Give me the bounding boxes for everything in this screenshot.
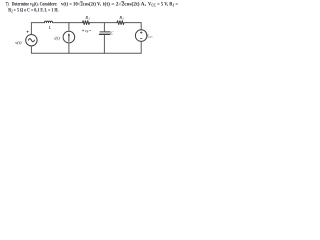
voltage source v(t) — [26, 35, 37, 46]
plus mark of vR — [82, 30, 84, 32]
wire right branch — [140, 41, 142, 53]
arrowhead of current source arrow — [68, 33, 70, 35]
inductor L — [45, 21, 53, 22]
svg-text:R2 = 5 Ω e C = 0,1 F, L = 1 H.: R2 = 5 Ω e C = 0,1 F, L = 1 H. — [8, 8, 59, 14]
svg-text:C: C — [110, 31, 114, 36]
capacitor C top plate — [100, 31, 110, 33]
capacitor C branch wire lower — [103, 35, 105, 53]
minus mark of vR — [89, 30, 91, 32]
svg-text:L: L — [48, 25, 52, 30]
plus polarity mark above v(t) — [27, 31, 29, 33]
wire current source branch — [68, 23, 70, 54]
svg-text:R2: R2 — [118, 15, 124, 21]
resistor R1 — [83, 21, 90, 25]
svg-text:VCC: VCC — [146, 33, 154, 39]
capacitor C bottom plate — [100, 33, 110, 35]
wire top-right corner — [125, 23, 142, 30]
wire top (R1 to R2) — [90, 22, 118, 24]
svg-text:v(t): v(t) — [15, 40, 22, 45]
svg-text:Determine vR(t). Considere:: Determine vR(t). Considere: — [12, 0, 58, 7]
svg-text:v(t) = 10√2cos(2t) V,: v(t) = 10√2cos(2t) V, — [61, 0, 102, 7]
wire left-bottom — [31, 46, 69, 53]
svg-text:i(t): i(t) — [54, 36, 60, 41]
svg-text:VCC = 5 V, R1 =: VCC = 5 V, R1 = — [148, 1, 178, 7]
wire top middle (L to R1) — [53, 22, 83, 24]
DC source Vcc — [135, 30, 147, 42]
svg-text:i(t) = 2√2cos(2t) A,: i(t) = 2√2cos(2t) A, — [103, 0, 147, 7]
arrow inside current source — [68, 34, 70, 41]
plus sign inside Vcc — [140, 31, 142, 33]
svg-text:R1: R1 — [84, 15, 90, 21]
minus sign inside Vcc — [140, 38, 142, 40]
wire bottom middle — [69, 52, 105, 54]
resistor R2 — [117, 21, 124, 25]
sine symbol — [28, 39, 34, 42]
svg-text:7): 7) — [6, 0, 9, 7]
current source i(t) — [63, 31, 75, 43]
svg-text:vR: vR — [85, 29, 89, 34]
capacitor C branch wire upper — [103, 23, 105, 32]
wire top-left segment — [31, 23, 44, 35]
wire bottom right — [104, 52, 141, 54]
